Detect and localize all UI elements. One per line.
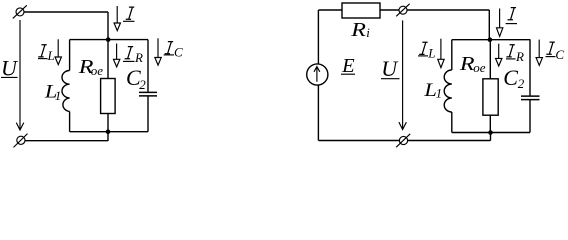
wire source bottom lead: [317, 85, 319, 140]
underline of IC: [164, 54, 174, 56]
terminal (bottom-left input): [14, 134, 28, 148]
svg-text:C: C: [555, 47, 564, 62]
underline of U (right): [381, 78, 400, 80]
wire bottom to terminal: [319, 140, 400, 142]
wire R branch bottom lead (right): [489, 115, 491, 132]
svg-text:oe: oe: [91, 63, 104, 78]
node A (top junction): [106, 37, 111, 42]
current arrow IL (right): [438, 39, 444, 68]
current arrow IC (left): [155, 38, 161, 65]
wire L1 bottom lead: [69, 112, 71, 132]
terminal (bottom output): [396, 134, 410, 147]
label L1: [44, 80, 61, 103]
wire tank bottom (right): [452, 132, 530, 134]
wire tank bottom: [70, 131, 148, 133]
current arrow I (right): [496, 9, 502, 37]
label C2: [126, 65, 146, 92]
underline of I: [123, 20, 135, 22]
capacitor C2 plates (right): [521, 96, 540, 100]
voltage arrow U: [16, 20, 24, 130]
underline of IL (right): [418, 55, 428, 57]
label Roe (right): [459, 52, 486, 75]
label L1 (right): [423, 78, 442, 100]
wire drop to node C: [488, 10, 490, 40]
svg-text:R: R: [134, 50, 143, 65]
terminal (top output): [396, 4, 409, 16]
svg-text:E: E: [341, 55, 355, 77]
wire C branch bottom lead (right): [529, 100, 531, 133]
svg-text:oe: oe: [473, 60, 486, 75]
wire L1 bottom lead (right): [451, 112, 453, 133]
capacitor C2 plates: [139, 92, 157, 96]
label IL (right): [419, 42, 435, 60]
wire C branch top lead (right): [529, 39, 531, 96]
label IL (left): [38, 45, 54, 63]
wire drop to node A: [107, 12, 109, 40]
svg-text:2: 2: [139, 77, 146, 92]
wire C branch top lead: [147, 40, 149, 92]
underline of U: [1, 76, 18, 78]
label E: [341, 55, 355, 77]
svg-text:i: i: [366, 25, 370, 40]
wire terminal to rise: [408, 140, 491, 142]
svg-text:U: U: [381, 56, 399, 81]
wire terminal to corner: [407, 9, 489, 11]
wire L1 top lead: [69, 40, 71, 71]
svg-text:2: 2: [518, 76, 525, 91]
node D (bottom junction right): [488, 130, 493, 135]
current arrow IL (left): [55, 39, 61, 64]
inductor L1: [62, 71, 70, 112]
underline of IR: [123, 60, 135, 62]
current arrow I (left): [114, 6, 120, 31]
wire R branch bottom lead: [107, 114, 109, 132]
wire tank top: [70, 39, 148, 41]
underline of IC (right): [546, 56, 556, 58]
label Ri: [350, 18, 370, 41]
current arrow IR (right): [496, 44, 502, 66]
underline of E: [341, 73, 355, 75]
underline of IL: [38, 58, 48, 60]
inductor L1 (right): [444, 70, 452, 112]
wire R branch top lead (right): [489, 40, 491, 79]
svg-text:R: R: [515, 49, 524, 64]
svg-text:C: C: [174, 45, 183, 60]
svg-text:C: C: [503, 65, 518, 90]
svg-text:1: 1: [436, 86, 443, 101]
resistor Ri (box): [342, 3, 380, 18]
wire R branch top lead: [107, 40, 109, 79]
current arrow IR (left): [113, 44, 119, 67]
wire node B down: [107, 132, 109, 141]
voltage arrow U (right): [399, 20, 407, 129]
label IR (left): [125, 47, 143, 65]
svg-text:L: L: [427, 46, 435, 61]
resistor Roe (box, right): [483, 79, 498, 115]
resistor Roe (box): [101, 79, 116, 114]
label IC (right): [546, 42, 564, 62]
terminal (top-left input): [13, 5, 27, 18]
label U (left): [1, 56, 19, 81]
node B (bottom junction): [106, 129, 111, 134]
wire source top lead: [317, 10, 319, 64]
underline of I (right): [506, 23, 517, 25]
wire bottom horizontal: [25, 140, 108, 142]
label I (right): [508, 8, 517, 20]
wire L1 top lead (right): [451, 40, 453, 70]
node C (top junction right): [488, 37, 493, 42]
source E (circle with up arrow): [307, 64, 328, 85]
label IC (left): [165, 42, 183, 60]
svg-text:R: R: [350, 18, 366, 41]
svg-text:L: L: [47, 48, 55, 63]
svg-text:1: 1: [55, 88, 62, 103]
label IR (right): [506, 45, 524, 64]
underline of IR (right): [506, 58, 516, 60]
wire C branch bottom lead: [147, 96, 149, 132]
wire top horizontal: [24, 11, 108, 13]
wire tank top (right): [452, 39, 530, 41]
label C2 (right): [503, 65, 524, 91]
svg-text:U: U: [1, 56, 19, 81]
wire top to Ri: [319, 9, 343, 11]
wire rise to node D: [490, 133, 492, 141]
label I (left): [126, 7, 135, 19]
label U (right): [381, 56, 399, 81]
wire Ri to terminal: [380, 9, 399, 11]
current arrow IC (right): [536, 40, 542, 66]
label Roe: [78, 55, 104, 78]
